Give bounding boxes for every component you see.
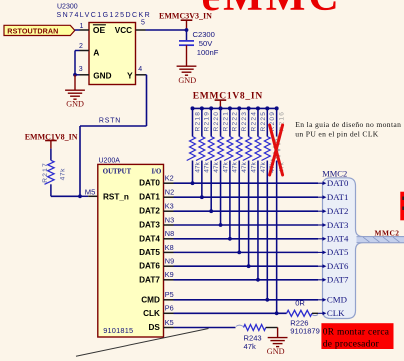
svg-text:K9: K9 bbox=[165, 270, 174, 279]
svg-text:un PU en el pin del CLK: un PU en el pin del CLK bbox=[295, 130, 379, 139]
svg-text:5: 5 bbox=[141, 20, 145, 27]
svg-text:eMMC: eMMC bbox=[202, 0, 342, 20]
svg-text:47k: 47k bbox=[232, 161, 239, 172]
svg-text:MMC2: MMC2 bbox=[375, 228, 400, 237]
svg-text:R225: R225 bbox=[260, 111, 267, 132]
svg-text:DAT1: DAT1 bbox=[139, 193, 160, 202]
svg-text:DAT5: DAT5 bbox=[139, 248, 160, 257]
svg-text:R221: R221 bbox=[222, 111, 229, 132]
svg-text:de procesador: de procesador bbox=[323, 340, 380, 350]
svg-text:47k: 47k bbox=[260, 161, 267, 172]
svg-text:9101879: 9101879 bbox=[290, 327, 320, 336]
svg-text:47k: 47k bbox=[241, 161, 248, 172]
svg-text:OE: OE bbox=[93, 25, 106, 35]
svg-text:RSTN: RSTN bbox=[99, 118, 121, 125]
svg-text:4: 4 bbox=[138, 66, 142, 73]
svg-text:DAT7: DAT7 bbox=[327, 275, 349, 285]
svg-text:R223: R223 bbox=[241, 111, 248, 132]
svg-text:M5: M5 bbox=[85, 187, 96, 196]
svg-text:47k: 47k bbox=[244, 342, 256, 351]
svg-text:EMMC3V3_IN: EMMC3V3_IN bbox=[159, 11, 212, 20]
svg-text:CLK: CLK bbox=[143, 309, 160, 318]
svg-text:EMMC1V8_IN: EMMC1V8_IN bbox=[193, 92, 263, 102]
svg-text:OUTPUT: OUTPUT bbox=[103, 169, 132, 176]
svg-text:N2: N2 bbox=[165, 188, 174, 197]
svg-text:47k: 47k bbox=[213, 161, 220, 172]
svg-text:N3: N3 bbox=[165, 215, 174, 224]
svg-text:N9: N9 bbox=[165, 257, 174, 266]
svg-text:En la guia de diseño no montan: En la guia de diseño no montan bbox=[295, 120, 401, 129]
svg-text:DAT2: DAT2 bbox=[139, 207, 160, 216]
svg-text:CLK: CLK bbox=[327, 308, 345, 318]
svg-text:Y: Y bbox=[127, 71, 133, 81]
svg-text:A: A bbox=[93, 47, 99, 57]
svg-text:47k: 47k bbox=[250, 161, 257, 172]
svg-text:1: 1 bbox=[80, 23, 84, 30]
svg-text:R218: R218 bbox=[194, 111, 201, 132]
svg-text:9101815: 9101815 bbox=[103, 326, 133, 335]
svg-text:R219: R219 bbox=[204, 111, 211, 132]
svg-text:P5: P5 bbox=[165, 290, 174, 299]
svg-text:DAT3: DAT3 bbox=[327, 220, 349, 230]
svg-text:U2300: U2300 bbox=[57, 4, 78, 11]
svg-text:R222: R222 bbox=[232, 111, 239, 132]
svg-text:P6: P6 bbox=[165, 304, 174, 313]
svg-text:3: 3 bbox=[79, 66, 83, 73]
svg-text:DAT0: DAT0 bbox=[139, 179, 160, 188]
svg-text:R220: R220 bbox=[213, 111, 220, 132]
svg-text:DAT0: DAT0 bbox=[327, 178, 349, 188]
svg-text:GND: GND bbox=[66, 100, 84, 109]
svg-text:DAT1: DAT1 bbox=[327, 192, 349, 202]
svg-text:0R montar cerca: 0R montar cerca bbox=[323, 328, 390, 338]
svg-text:DAT2: DAT2 bbox=[327, 206, 349, 216]
svg-text:GND: GND bbox=[93, 72, 111, 81]
svg-text:GND: GND bbox=[267, 347, 285, 356]
svg-text:DAT4: DAT4 bbox=[139, 234, 160, 243]
svg-text:DAT5: DAT5 bbox=[327, 247, 349, 257]
svg-text:DAT6: DAT6 bbox=[139, 262, 160, 271]
svg-text:DAT3: DAT3 bbox=[139, 221, 160, 230]
svg-text:VCC: VCC bbox=[115, 26, 132, 35]
svg-text:K5: K5 bbox=[165, 318, 174, 327]
svg-text:K3: K3 bbox=[165, 202, 174, 211]
svg-text:DAT4: DAT4 bbox=[327, 234, 349, 244]
svg-text:47k: 47k bbox=[222, 161, 229, 172]
svg-text:CMD: CMD bbox=[141, 295, 160, 304]
svg-text:47k: 47k bbox=[194, 161, 201, 172]
svg-text:100nF: 100nF bbox=[197, 48, 219, 57]
svg-text:U200A: U200A bbox=[99, 158, 121, 165]
svg-text:47k: 47k bbox=[60, 168, 67, 181]
svg-text:R224: R224 bbox=[250, 111, 257, 132]
svg-text:0R: 0R bbox=[295, 298, 305, 307]
svg-text:DAT7: DAT7 bbox=[139, 275, 160, 284]
svg-text:47k: 47k bbox=[204, 161, 211, 172]
svg-text:RST_n: RST_n bbox=[103, 192, 129, 201]
svg-text:CMD: CMD bbox=[327, 295, 347, 305]
svg-text:R217: R217 bbox=[42, 162, 49, 183]
svg-text:2: 2 bbox=[79, 43, 83, 50]
svg-text:K8: K8 bbox=[165, 243, 174, 252]
svg-text:DAT6: DAT6 bbox=[327, 261, 349, 271]
svg-text:RSTOUTDRAN: RSTOUTDRAN bbox=[7, 26, 58, 35]
svg-text:SN74LVC1G125DCKR: SN74LVC1G125DCKR bbox=[57, 12, 152, 19]
svg-text:K2: K2 bbox=[165, 174, 174, 183]
svg-text:50V: 50V bbox=[199, 39, 213, 48]
svg-text:GND: GND bbox=[178, 76, 196, 85]
svg-text:N8: N8 bbox=[165, 229, 174, 238]
svg-text:DS: DS bbox=[149, 323, 161, 332]
svg-text:I/O: I/O bbox=[151, 169, 161, 176]
svg-text:C2300: C2300 bbox=[193, 30, 215, 39]
